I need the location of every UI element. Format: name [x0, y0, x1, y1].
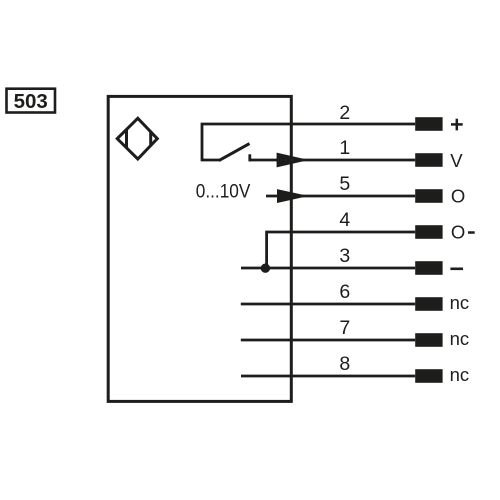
svg-text:O: O [451, 222, 465, 243]
svg-text:503: 503 [14, 90, 48, 113]
svg-text:1: 1 [339, 137, 350, 159]
svg-text:3: 3 [339, 245, 350, 267]
svg-text:V: V [450, 150, 463, 171]
svg-text:7: 7 [339, 317, 350, 339]
svg-text:8: 8 [339, 353, 350, 375]
svg-text:nc: nc [450, 364, 470, 385]
svg-text:0...10V: 0...10V [196, 180, 251, 202]
svg-text:nc: nc [450, 292, 470, 313]
svg-text:6: 6 [339, 281, 350, 303]
svg-text:nc: nc [450, 328, 470, 349]
svg-text:2: 2 [339, 102, 350, 124]
svg-text:5: 5 [339, 173, 350, 195]
svg-text:O: O [451, 186, 465, 207]
svg-text:4: 4 [339, 209, 350, 231]
